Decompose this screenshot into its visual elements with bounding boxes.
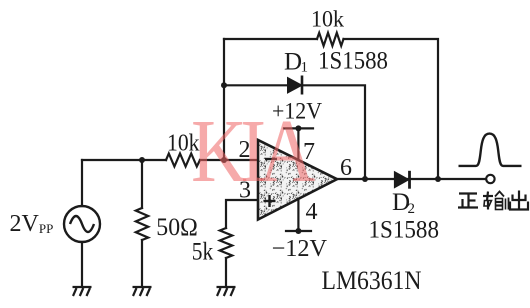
svg-text:4: 4 — [306, 199, 318, 225]
wire source bottom — [81, 242, 83, 287]
diode D2 — [394, 171, 409, 189]
wire pin 4 — [297, 199, 299, 231]
source V1 2Vpp sine generator — [64, 206, 100, 242]
junction node -12V — [295, 228, 301, 234]
wire feedback top right — [344, 39, 439, 179]
power bar -12V — [286, 230, 311, 232]
junction node +12V — [295, 125, 301, 131]
wire D1 branch — [224, 85, 365, 179]
svg-text:6: 6 — [340, 155, 352, 181]
svg-text:LM6361N: LM6361N — [322, 266, 422, 295]
svg-text:1S1588: 1S1588 — [318, 48, 388, 75]
wire 50ohm bottom — [141, 240, 143, 287]
wire source top — [81, 160, 83, 206]
terminal output (open circle) — [486, 175, 494, 183]
op-amp U1 inverting input minus sign — [265, 158, 277, 160]
junction node (rail / pin2 wire) — [221, 157, 227, 163]
resistor R3 50ohm — [136, 208, 148, 240]
label output 正输出 (drawn glyphs) — [458, 191, 528, 210]
svg-text:10k: 10k — [311, 7, 344, 32]
glyph 正 — [458, 194, 478, 208]
diode D1 — [288, 76, 303, 95]
wire inverting input from source — [82, 159, 166, 161]
svg-text:50Ω: 50Ω — [156, 214, 198, 241]
svg-text:2: 2 — [408, 201, 416, 217]
ground (50ohm) — [133, 287, 152, 296]
svg-text:1S1588: 1S1588 — [369, 217, 440, 244]
junction node (output / feedback) — [435, 176, 441, 182]
ground (5k) — [217, 287, 236, 296]
glyph 出 — [510, 191, 528, 210]
wire left rail — [223, 39, 225, 160]
resistor R2 10k (input) — [166, 154, 200, 167]
svg-text:D: D — [284, 49, 302, 76]
wire 50ohm top — [141, 160, 143, 208]
wire pin 7 — [297, 128, 299, 160]
ground (source) — [73, 287, 92, 296]
junction node (rail / D1 wire) — [221, 82, 227, 88]
wire feedback top left — [224, 38, 317, 40]
wire output — [337, 178, 486, 180]
wire to pin 2 — [200, 159, 259, 161]
junction node (output / D1 branch) — [362, 176, 368, 182]
svg-text:KIA: KIA — [191, 102, 316, 202]
svg-text:1: 1 — [301, 60, 309, 76]
svg-text:5k: 5k — [192, 239, 214, 266]
op-amp U1 non-inverting input plus sign — [264, 195, 276, 207]
glyph 输 — [483, 192, 509, 210]
wire non-inverting input — [226, 200, 259, 228]
resistor R4 5k — [220, 228, 232, 258]
waveform output symbol — [459, 134, 522, 166]
svg-text:−12V: −12V — [272, 236, 328, 262]
resistor R1 10k (feedback) — [317, 33, 344, 46]
junction node (50ohm / input wire) — [139, 157, 145, 163]
wire 5k bottom — [225, 258, 227, 287]
op-amp U1 LM6361N (triangle body) — [258, 140, 337, 220]
power bar +12V — [284, 127, 313, 129]
